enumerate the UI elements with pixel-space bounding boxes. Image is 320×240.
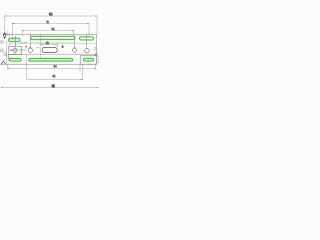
label 94 (54, 65, 56, 67)
arrow D46 left (22, 29, 24, 32)
label 24 (46, 42, 48, 44)
D46 right ext vertical (73, 30, 75, 34)
part right edge (96, 34, 98, 64)
part top edge dark left segment (3, 33, 10, 35)
green slot B3 (83, 58, 93, 61)
dimension D46 line (22, 30, 73, 36)
arrow D100 right (95, 15, 97, 18)
hole C2 (73, 48, 77, 52)
mid line upper (10, 43, 97, 45)
label 6 (62, 46, 63, 48)
right end cap rect (97, 57, 99, 63)
arrow D24 right (56, 43, 58, 46)
green slot T1 (9, 38, 20, 41)
right block box (80, 56, 97, 64)
C2 center line (74, 34, 76, 48)
arrow D46 right (72, 29, 74, 32)
ext line right of D100 (96, 16, 98, 35)
dimension D24 line (40, 34, 57, 58)
arrow D94 right (94, 67, 96, 70)
arrow DF right (97, 86, 99, 89)
green slot T2 (31, 36, 76, 39)
arrow D24 left (41, 43, 43, 46)
small dim over T1 (20, 41, 27, 43)
tiny mark above right end (95, 47, 97, 50)
vertical x9.7 (9, 34, 11, 46)
dimension DF line (1, 87, 99, 89)
leader through left block hole (10, 49, 27, 51)
part top edge (3, 33, 97, 35)
dimension D100 line (5, 16, 97, 35)
arrow D94 left (7, 67, 9, 70)
short vertical x7.2 (6, 31, 8, 35)
far-left circle b (0, 49, 3, 52)
mid line lower (8, 53, 97, 55)
arrow to left block hole (10, 49, 12, 50)
leader from mid line (26, 54, 28, 79)
middle slot S (42, 47, 57, 52)
dark step at B1 left end vertical (7, 54, 9, 60)
part bottom edge (1, 63, 97, 65)
label 79 (46, 21, 48, 23)
label 100 (49, 13, 52, 15)
arrow DF left (1, 86, 3, 89)
V notch top-left (3, 34, 6, 38)
label 160 (52, 85, 55, 87)
green slot B2 (29, 58, 73, 61)
ext line left of D100 (4, 16, 6, 34)
green slot T3 (80, 37, 94, 40)
C2 top tick (74, 47, 76, 49)
lambda notch bottom-left (1, 61, 6, 64)
background (0, 0, 100, 100)
green slot B1 (10, 59, 22, 62)
arrow D79 left (12, 22, 14, 25)
C1 center line (29, 34, 31, 48)
dark step at B1 left end horizontal (8, 57, 11, 59)
arrow D100 left (5, 15, 7, 18)
dimension DE line (27, 65, 83, 80)
far-left circle c (4, 53, 7, 56)
vertical x15.6 (15, 36, 17, 46)
tiny green mark right end (95, 54, 97, 56)
notch mark at top edge (4, 33, 6, 34)
dimension D94 line (7, 65, 96, 73)
dimension D79 line (12, 23, 89, 40)
arrow DE right (81, 78, 83, 81)
hole C1 (28, 48, 32, 52)
vertical x6.8 left block boundary (6, 41, 8, 64)
label 40 (53, 75, 55, 77)
arrow right of C1 (37, 47, 39, 49)
faint slot ledge line (31, 41, 75, 43)
small arrow mark pointing at C1 (25, 46, 27, 48)
far-left circle a (0, 41, 3, 44)
left block box (9, 46, 22, 54)
hole in left block (13, 48, 17, 52)
label 46 (52, 28, 54, 30)
hole C3 (85, 48, 90, 53)
crosshair vertical in left block hole (14, 46, 16, 54)
C3 center line (85, 34, 87, 49)
C1 top tick (29, 47, 32, 49)
arrow D79 right (87, 22, 89, 25)
